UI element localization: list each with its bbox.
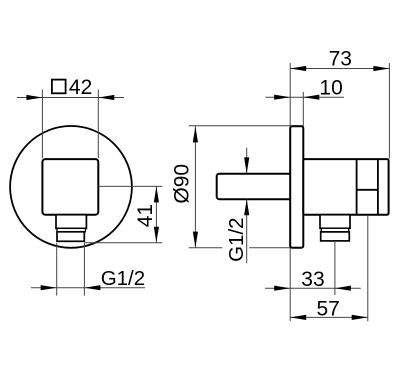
svg-text:G1/2: G1/2 xyxy=(225,217,248,261)
dimension 10 extension line (flange right) xyxy=(302,92,304,125)
wall face extension line below flange (for 33 and 57) xyxy=(289,248,291,321)
dimension 33 arrow left xyxy=(274,286,290,291)
dimension 57 extension line right xyxy=(367,215,369,321)
dimension G1/2 (front) extension line right xyxy=(83,243,85,296)
dimension Ø90 line xyxy=(194,126,196,247)
dimension □42 arrow right xyxy=(98,95,114,100)
outlet thread (side) xyxy=(321,232,350,241)
dimension 41 bottom extension line xyxy=(85,242,163,244)
dimension □42 extension line right xyxy=(97,90,99,159)
square body (side) xyxy=(303,159,388,215)
square body (front) xyxy=(42,159,98,215)
dimension 10 arrow right xyxy=(303,95,319,100)
outlet collar band (side) xyxy=(321,228,348,232)
dimension 33 centerline extension xyxy=(334,242,336,295)
G1/2 (side) upper arrow line xyxy=(246,148,248,174)
dimension G1/2 (front) arrow left xyxy=(41,285,57,290)
dimension Ø90 bottom extension line right part xyxy=(249,247,290,249)
dimension 57 line xyxy=(290,316,368,318)
svg-text:41: 41 xyxy=(134,204,157,227)
dimension G1/2 (front) arrow right xyxy=(84,285,100,290)
dimension □42 arrow left xyxy=(26,95,42,100)
dimension □42 line xyxy=(17,97,124,99)
dimension 73 extension line left (wall face) xyxy=(289,63,291,125)
outlet neck (side) xyxy=(320,215,350,229)
dimension 10 arrow left xyxy=(274,95,290,100)
G1/2 (side) lower arrow line xyxy=(246,199,248,263)
body front divider horizontal xyxy=(357,189,378,191)
dimension 41 line xyxy=(155,186,157,242)
square symbol of □42 label xyxy=(52,80,66,94)
dimension 10 line xyxy=(265,96,344,98)
dimension 33 arrow right xyxy=(335,286,351,291)
outlet thread (front) xyxy=(57,232,84,242)
dimension 41 arrow up xyxy=(154,187,159,203)
dimension 73 line xyxy=(290,68,389,70)
G1/2 (side) upper arrow xyxy=(244,157,249,173)
wall plate circle (Ø90) xyxy=(10,126,132,248)
svg-text:10: 10 xyxy=(319,77,342,100)
inlet pipe (side) xyxy=(217,174,292,200)
svg-text:Ø90: Ø90 xyxy=(171,164,194,204)
dimension Ø90 top extension line xyxy=(189,125,304,127)
dimension Ø90 arrow up xyxy=(193,126,198,142)
dimension G1/2 (front) extension line left xyxy=(56,243,58,296)
dimension 73 arrow right xyxy=(373,66,389,71)
dimension 73 extension line right (body front) xyxy=(388,63,390,158)
svg-text:73: 73 xyxy=(329,48,352,71)
outlet neck (front) xyxy=(56,215,86,229)
G1/2 (side) lower arrow xyxy=(244,199,249,215)
dimension 41 arrow down xyxy=(154,227,159,243)
wall flange (side) xyxy=(290,126,303,248)
dimension 57 arrow left xyxy=(290,315,306,320)
svg-text:57: 57 xyxy=(317,298,340,321)
dimension Ø90 bottom extension line (gap at G1/2 text) xyxy=(189,247,223,249)
dimension Ø90 arrow down xyxy=(193,232,198,248)
dimension 41 top extension line xyxy=(98,185,162,187)
dimension 73 arrow left xyxy=(290,66,306,71)
dimension G1/2 (front) line xyxy=(31,287,145,289)
svg-text:42: 42 xyxy=(69,76,92,99)
dimension 33 line xyxy=(265,287,361,289)
svg-text:G1/2: G1/2 xyxy=(101,267,145,290)
outlet collar band (front) xyxy=(57,228,85,231)
dimension 57 arrow right xyxy=(352,315,368,320)
dimension □42 extension line left xyxy=(41,90,43,159)
body front section line 1 xyxy=(356,159,358,215)
svg-text:33: 33 xyxy=(301,268,324,291)
body front section line 2 xyxy=(377,159,379,215)
